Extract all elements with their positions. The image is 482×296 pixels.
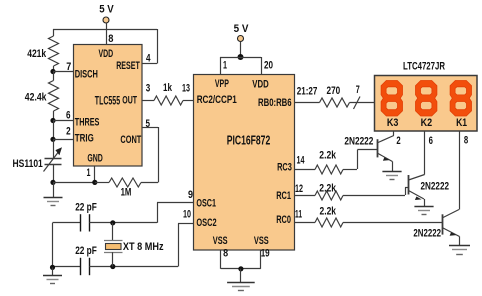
svg-text:5 V: 5 V xyxy=(99,4,114,16)
U1 label DISCH xyxy=(75,69,98,81)
U2 label VSS left xyxy=(213,235,228,247)
display label K2 xyxy=(421,117,433,129)
svg-text:2.2k: 2.2k xyxy=(319,183,336,195)
pin 12 label xyxy=(295,183,303,195)
svg-text:PIC16F872: PIC16F872 xyxy=(227,133,271,148)
ground Q3 xyxy=(449,246,470,255)
svg-text:13: 13 xyxy=(182,83,190,95)
svg-text:14: 14 xyxy=(297,155,306,167)
wire TRIG pin 2 xyxy=(53,139,74,141)
wire GND pin 1 xyxy=(94,166,96,182)
U2 label PIC16F872 xyxy=(227,133,271,148)
svg-text:VDD: VDD xyxy=(98,48,113,60)
svg-text:22 pF: 22 pF xyxy=(75,202,97,214)
node TRIG junction xyxy=(50,137,55,142)
svg-text:VDD: VDD xyxy=(252,79,268,91)
ground Q1 xyxy=(382,172,401,180)
svg-text:5 V: 5 V xyxy=(234,23,249,35)
display label LTC4727JR xyxy=(403,61,445,73)
svg-text:11: 11 xyxy=(295,209,302,221)
svg-text:2: 2 xyxy=(66,126,71,138)
wire Q3 emitter to ground xyxy=(459,237,461,246)
ground below caps xyxy=(43,267,62,283)
U1 label VDD xyxy=(98,48,113,60)
svg-text:VSS: VSS xyxy=(254,235,269,247)
wire base jog Q1 xyxy=(357,150,377,170)
svg-text:2N2222: 2N2222 xyxy=(344,135,373,147)
node DISCH junction xyxy=(50,69,55,74)
svg-text:RC3: RC3 xyxy=(277,162,292,174)
U1 label CONT xyxy=(120,134,141,146)
wire Q3 collector to display pin 8 xyxy=(459,131,461,210)
power +5V supply (PIC) xyxy=(234,23,249,42)
wire top rail xyxy=(53,28,157,31)
resistor R5 270 xyxy=(295,85,375,107)
svg-text:DISCH: DISCH xyxy=(75,69,98,81)
wire base jog Q2 xyxy=(405,188,409,196)
svg-text:TLC555: TLC555 xyxy=(95,94,120,108)
display digit 8 (right) xyxy=(450,81,471,117)
U2 label RC3 xyxy=(277,162,292,174)
svg-text:2.2k: 2.2k xyxy=(320,206,337,218)
svg-text:21:27: 21:27 xyxy=(297,86,318,98)
svg-text:HS1101: HS1101 xyxy=(13,158,43,170)
pin 6 label xyxy=(66,110,71,122)
svg-text:2.2k: 2.2k xyxy=(319,150,336,162)
svg-text:2: 2 xyxy=(396,135,400,147)
svg-text:6: 6 xyxy=(429,135,433,147)
svg-text:K2: K2 xyxy=(421,117,433,129)
resistor R3 1M xyxy=(95,178,158,199)
node VSS junction xyxy=(238,266,243,271)
wire OSC1 xyxy=(113,203,194,223)
display digit 8 (middle) xyxy=(416,81,437,117)
svg-text:22 pF: 22 pF xyxy=(75,245,97,257)
wire Q1 emitter to ground xyxy=(392,162,394,172)
U2 label RC2/CCP1 xyxy=(197,94,237,106)
IC U2 PIC16F872 body xyxy=(194,75,295,251)
svg-text:4: 4 xyxy=(146,53,151,65)
pin 8 label (TLC555 VDD) xyxy=(108,33,113,45)
svg-text:RB0:RB6: RB0:RB6 xyxy=(258,97,292,109)
resistor R7 2.2k xyxy=(295,183,406,201)
svg-text:OUT: OUT xyxy=(122,95,137,107)
node caps ground junction xyxy=(50,265,55,270)
U1 label RESET xyxy=(116,60,140,72)
node XT top junction xyxy=(110,220,115,225)
svg-text:RC1: RC1 xyxy=(276,190,291,202)
display DS1 LTC4727JR body xyxy=(375,76,478,132)
svg-text:XT 8 MHz: XT 8 MHz xyxy=(123,241,164,253)
pin 2 label xyxy=(66,126,71,138)
svg-text:RC2/CCP1: RC2/CCP1 xyxy=(197,94,237,106)
U1 label THRES xyxy=(75,117,100,129)
bus slash 7 lines xyxy=(354,84,361,109)
display label K1 xyxy=(456,117,467,129)
node THRES junction xyxy=(50,118,55,123)
svg-text:7: 7 xyxy=(66,61,71,73)
transistor Q3 2N2222 xyxy=(413,210,459,240)
svg-text:6: 6 xyxy=(66,110,71,122)
ground Q2 xyxy=(414,207,433,215)
svg-text:42.4k: 42.4k xyxy=(25,92,47,104)
pin 20 label (VDD) xyxy=(264,60,273,72)
svg-text:5: 5 xyxy=(146,118,151,130)
node XT bottom junction xyxy=(110,264,115,269)
pin 7 label xyxy=(66,61,71,73)
svg-text:270: 270 xyxy=(327,85,341,97)
svg-text:K3: K3 xyxy=(387,117,399,129)
svg-text:LTC4727JR: LTC4727JR xyxy=(403,61,445,73)
pin 1 label (VPP) xyxy=(223,60,227,72)
resistor R2 42.4k xyxy=(25,72,59,121)
svg-text:TRIG: TRIG xyxy=(75,132,94,144)
svg-text:RC0: RC0 xyxy=(276,214,291,226)
pin 4 label (RESET) xyxy=(146,53,151,65)
display digit 8 (left) xyxy=(381,81,402,117)
pin 1 label (TLC555 GND) xyxy=(87,167,91,179)
wire VSS pins 8 and 19 xyxy=(221,250,261,269)
resistor R6 2.2k xyxy=(295,150,358,175)
wire DISCH pin 7 xyxy=(53,71,74,73)
wire 5V to VDD pin 8 xyxy=(106,23,108,45)
svg-text:1k: 1k xyxy=(163,82,173,94)
U2 label OSC1 xyxy=(196,198,216,210)
wire rail to RESET xyxy=(142,29,158,64)
pin 13 label (RC2) xyxy=(182,83,190,95)
transistor Q1 2N2222 xyxy=(344,135,393,161)
resistor R4 1k xyxy=(142,82,194,105)
resistor R8 2.2k xyxy=(295,206,443,228)
svg-text:RESET: RESET xyxy=(116,60,140,72)
wire OSC2 xyxy=(113,224,194,267)
pin 14 label xyxy=(297,155,306,167)
svg-text:VSS: VSS xyxy=(213,235,228,247)
svg-text:1: 1 xyxy=(87,167,91,179)
sensor C1 HS1101 humidity capacitor xyxy=(13,139,63,182)
svg-text:1M: 1M xyxy=(121,187,132,199)
node PIC 5V junction xyxy=(238,54,244,60)
U1 label OUT xyxy=(122,95,137,107)
pin 6 label (K2) xyxy=(429,135,433,147)
pin 8 label (K1) xyxy=(464,135,468,147)
U2 label OSC2 xyxy=(196,217,216,229)
capacitor C3 22pF xyxy=(53,245,113,275)
pin 2 label (K3) xyxy=(396,135,400,147)
wire Q2 collector to display pin 6 xyxy=(424,131,426,175)
U2 label VPP xyxy=(215,78,229,90)
svg-text:OSC2: OSC2 xyxy=(196,217,216,229)
pin 11 label xyxy=(295,209,302,221)
wire Q1 collector to display pin 2 xyxy=(393,131,395,136)
wire 5V to PIC rail xyxy=(240,42,242,58)
pin 19 label (VSS) xyxy=(261,248,270,260)
wire 1M to CONT pin 5 xyxy=(142,127,159,182)
pin 5 label (CONT) xyxy=(146,118,151,130)
ground below HS1101 xyxy=(44,182,63,205)
svg-text:VPP: VPP xyxy=(215,78,229,90)
svg-text:2N2222: 2N2222 xyxy=(413,228,441,240)
node HS1101 bottom junction xyxy=(50,180,55,185)
svg-text:1: 1 xyxy=(223,60,227,72)
pin 8 label (VSS) xyxy=(223,248,228,260)
power +5V supply (TLC555) xyxy=(99,4,114,24)
pin 9 label xyxy=(188,189,193,201)
svg-text:THRES: THRES xyxy=(75,117,100,129)
ground below PIC xyxy=(227,269,255,291)
U1 label TLC555 xyxy=(95,94,120,108)
label 21:27 pins xyxy=(297,86,318,98)
svg-text:8: 8 xyxy=(108,33,113,45)
transistor Q2 2N2222 xyxy=(409,175,450,201)
U1 label TRIG xyxy=(75,132,94,144)
svg-text:CONT: CONT xyxy=(120,134,141,146)
crystal Y1 XT 8 MHz xyxy=(104,223,164,267)
svg-text:3: 3 xyxy=(146,83,151,95)
svg-text:9: 9 xyxy=(188,189,193,201)
wire Q2 emitter to ground xyxy=(424,199,426,207)
U2 label VSS right xyxy=(254,235,269,247)
svg-text:20: 20 xyxy=(264,60,273,72)
node pin1 junction xyxy=(92,180,97,185)
U2 label RC0 xyxy=(276,214,291,226)
capacitor C2 22pF xyxy=(53,202,113,232)
wire THRES pin 6 xyxy=(53,120,74,122)
svg-text:421k: 421k xyxy=(27,48,47,60)
wire THRES to TRIG xyxy=(53,121,55,140)
svg-text:12: 12 xyxy=(295,183,303,195)
svg-text:2N2222: 2N2222 xyxy=(421,181,450,193)
svg-text:10: 10 xyxy=(183,209,191,221)
IC U1 TLC555 body xyxy=(74,45,143,167)
svg-text:19: 19 xyxy=(261,248,270,260)
resistor R1 421k xyxy=(27,29,58,72)
svg-text:7: 7 xyxy=(356,84,360,96)
U2 label RB0:RB6 xyxy=(258,97,292,109)
wire PIC power rail xyxy=(220,57,262,75)
U2 label RC1 xyxy=(276,190,291,202)
U1 label GND xyxy=(87,152,103,164)
pin 10 label xyxy=(183,209,191,221)
wire caps left vertical xyxy=(52,223,54,268)
display label K3 xyxy=(387,117,399,129)
svg-text:K1: K1 xyxy=(456,117,467,129)
pin 3 label (OUT) xyxy=(146,83,151,95)
svg-text:OSC1: OSC1 xyxy=(196,198,216,210)
svg-text:GND: GND xyxy=(87,152,103,164)
U2 label VDD xyxy=(252,79,268,91)
svg-text:8: 8 xyxy=(464,135,468,147)
wire HS1101 to GND pin 1 xyxy=(53,182,95,184)
svg-text:8: 8 xyxy=(223,248,228,260)
